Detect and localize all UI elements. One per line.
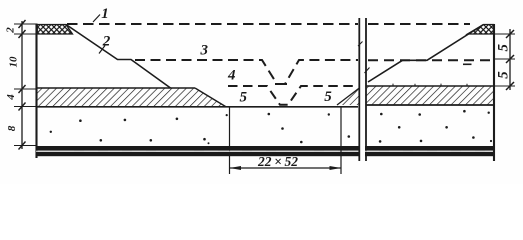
break line right bbox=[365, 18, 367, 161]
layer line 1 dashed left bbox=[67, 23, 358, 25]
concrete joint left bbox=[229, 107, 231, 174]
svg-text:1: 1 bbox=[101, 6, 109, 22]
svg-text:5: 5 bbox=[495, 71, 511, 79]
topsoil block left (crosshatched) bbox=[37, 25, 72, 35]
hatch overshoot ticks right bbox=[393, 84, 467, 87]
bituminous strip left bbox=[36, 146, 359, 156]
right extension lines bbox=[494, 34, 515, 86]
svg-text:8: 8 bbox=[6, 125, 18, 131]
break line left bbox=[358, 18, 360, 161]
svg-text:10: 10 bbox=[8, 56, 20, 68]
concrete top line left bbox=[36, 106, 358, 108]
excavation slope right bbox=[368, 25, 484, 83]
break tick marks bbox=[358, 42, 370, 74]
layer line 1 dashed right bbox=[368, 23, 470, 25]
excavation slope left bbox=[66, 25, 171, 89]
hatched layer 4 right bbox=[367, 86, 495, 105]
svg-text:2: 2 bbox=[102, 33, 111, 49]
svg-text:3: 3 bbox=[200, 42, 209, 58]
dimension 22x52 arrows bbox=[230, 166, 342, 170]
short dash mark right bbox=[463, 63, 472, 65]
svg-text:22 × 52: 22 × 52 bbox=[257, 154, 298, 169]
topsoil block right (crosshatched) bbox=[468, 25, 494, 35]
dimension 22x52 line bbox=[230, 167, 342, 169]
hatched wedge 5 (right of trench) bbox=[337, 88, 359, 105]
svg-text:5: 5 bbox=[239, 90, 247, 106]
trench notch bottom solid bbox=[275, 83, 287, 85]
concrete dots bbox=[50, 110, 493, 144]
svg-text:5: 5 bbox=[324, 89, 332, 105]
layer line 4 dashed with trench notch bbox=[228, 86, 358, 105]
left extension lines bbox=[14, 24, 37, 146]
right dimension line bbox=[509, 29, 511, 90]
bituminous strip right bbox=[365, 146, 495, 156]
concrete joint right bbox=[340, 107, 342, 174]
layer line 3 dashed right bbox=[368, 59, 493, 61]
svg-text:2: 2 bbox=[5, 27, 17, 34]
right dimension ticks bbox=[506, 30, 514, 90]
svg-text:5: 5 bbox=[495, 43, 511, 51]
label 2 leader bbox=[99, 46, 105, 54]
svg-text:4: 4 bbox=[227, 67, 236, 83]
layer line 3 dashed with trench notch bbox=[135, 60, 358, 84]
label 1 leader bbox=[93, 15, 100, 23]
left dimension ticks bbox=[19, 20, 26, 150]
hatched layer 4 left (asphalt) bbox=[37, 88, 226, 107]
concrete top line right bbox=[367, 104, 495, 106]
svg-text:4: 4 bbox=[5, 94, 17, 101]
left wall bbox=[35, 24, 37, 159]
left dimension line bbox=[21, 21, 23, 149]
right boundary wall bbox=[493, 24, 495, 161]
